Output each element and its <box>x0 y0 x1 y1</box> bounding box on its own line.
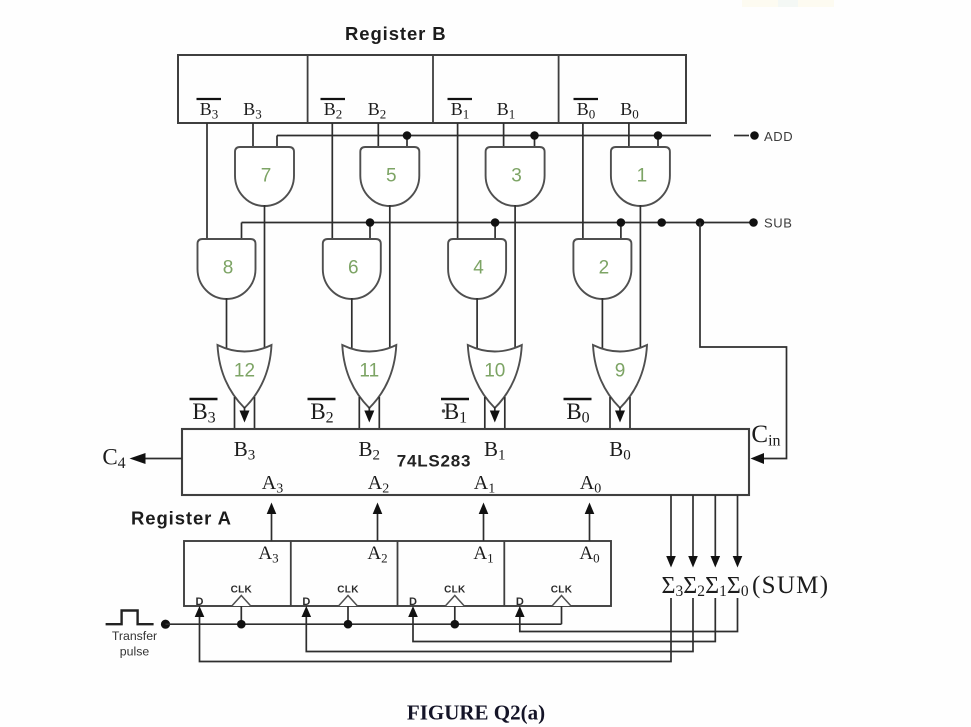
OR gate 11 <box>342 345 396 408</box>
svg-text:10: 10 <box>484 361 505 382</box>
wire gate 6 output to OR gate <box>351 298 353 353</box>
junction SUB / gate 2 <box>617 218 626 227</box>
svg-text:5: 5 <box>386 166 397 187</box>
AND gate 4 <box>448 239 506 299</box>
svg-text:pulse: pulse <box>120 645 150 659</box>
junction ADD / gate 1 <box>654 131 663 140</box>
node ADD terminal dot <box>750 131 759 140</box>
wire CLK stub (cell A3) <box>240 606 242 624</box>
svg-text:Register A: Register A <box>131 508 232 529</box>
AND gate 7 <box>235 147 294 206</box>
junction SUB / gate 4 <box>491 218 500 227</box>
wire C4 output <box>145 458 182 460</box>
wire A0 register A to adder <box>589 509 591 541</box>
wire A2 register A to adder <box>377 509 379 541</box>
svg-text:CLK: CLK <box>231 585 253 596</box>
svg-text:74LS283: 74LS283 <box>397 452 472 471</box>
wire CLK stub (cell A2) <box>347 606 349 624</box>
node transfer pulse dot <box>161 620 170 629</box>
wire B0bar from register B to gate 2 <box>582 123 584 239</box>
register B <box>178 55 686 123</box>
svg-text:FIGURE Q2(a): FIGURE Q2(a) <box>407 701 545 725</box>
svg-text:11: 11 <box>359 361 379 382</box>
svg-text:SUB: SUB <box>764 216 793 231</box>
AND gate 5 <box>360 147 419 206</box>
junction ADD / gate 3 <box>530 131 539 140</box>
wire gate 2 output to OR gate <box>601 298 603 353</box>
junction SUB / Cin feed <box>696 218 705 227</box>
wire CLK stub (cell A1) <box>454 606 456 624</box>
node B3bar (adder input) <box>190 399 218 427</box>
svg-text:(SUM): (SUM) <box>752 572 829 599</box>
wire B3bar from register B to gate 8 <box>206 123 208 239</box>
clock input CLK (cell A0) <box>551 585 573 607</box>
wire ADD tap to gate 3 <box>534 136 536 148</box>
svg-text:Transfer: Transfer <box>112 629 157 643</box>
svg-text:8: 8 <box>223 258 234 279</box>
junction pulse line / CLK A2 <box>344 620 353 629</box>
AND gate 6 <box>323 239 381 299</box>
wire B0 from register B to gate 1 <box>628 123 630 147</box>
wire SUB tap to gate 2 <box>620 223 622 240</box>
svg-text:6: 6 <box>348 258 359 279</box>
pin label B2bar (register B) <box>321 99 346 122</box>
wire sum S3 from adder <box>670 495 672 559</box>
wire gate 7 output to OR gate <box>264 205 266 353</box>
AND gate 1 <box>611 147 670 206</box>
wire gate 8 output to OR gate <box>226 298 228 353</box>
wire SUB tap to gate 4 <box>494 223 496 240</box>
wire sum S2 from adder <box>692 495 694 559</box>
adder 74LS283 U1 <box>182 429 749 495</box>
junction pulse line / CLK A1 <box>451 620 460 629</box>
svg-text:CLK: CLK <box>444 585 466 596</box>
wire A3 register A to adder <box>271 509 273 541</box>
wire transfer pulse line <box>166 623 562 625</box>
transfer pulse source <box>106 611 154 625</box>
OR gate 9 <box>593 345 647 408</box>
wire OR gate 12 output to 74LS283 <box>235 397 255 429</box>
wire sum S1 from adder <box>714 495 716 559</box>
svg-text:9: 9 <box>615 361 626 382</box>
label SUM outputs <box>662 572 830 600</box>
wire B3 from register B to gate 7 <box>252 123 254 147</box>
OR gate 10 <box>468 345 522 408</box>
clock input CLK (cell A1) <box>444 585 466 607</box>
junction pulse line / CLK A3 <box>237 620 246 629</box>
wire S0 feedback to D of A0 <box>520 598 738 632</box>
wire gate 1 output to OR gate <box>639 205 641 353</box>
wire ADD tap to gate 5 <box>406 136 408 148</box>
wire B1 from register B to gate 3 <box>503 123 505 147</box>
wire gate 4 output to OR gate <box>476 298 478 353</box>
node B0bar (adder input) <box>564 399 592 427</box>
wire ADD tap to gate 1 <box>657 136 659 148</box>
wire SUB tap to gate 6 <box>369 223 371 240</box>
ADD net wire <box>277 135 711 137</box>
svg-text:2: 2 <box>599 258 610 279</box>
wire gate 3 output to OR gate <box>514 205 516 353</box>
wire B1bar from register B to gate 4 <box>457 123 459 239</box>
svg-text:CLK: CLK <box>337 585 359 596</box>
wire sum S0 from adder <box>737 495 739 559</box>
pin label B1bar (register B) <box>448 99 473 122</box>
AND gate 3 <box>486 147 545 206</box>
SUB net wire <box>242 222 754 224</box>
wire OR gate 9 output to 74LS283 <box>610 397 630 429</box>
wire S2 feedback to D of A2 <box>306 598 693 652</box>
pin label B3bar (register B) <box>197 99 222 122</box>
label Transfer pulse <box>112 629 157 659</box>
svg-text:4: 4 <box>473 258 484 279</box>
wire A1 register A to adder <box>483 509 485 541</box>
wire S3 feedback to D of A3 <box>200 598 672 662</box>
OR gate 12 <box>218 345 272 408</box>
svg-text:Register B: Register B <box>345 23 447 44</box>
wire B2 from register B to gate 5 <box>377 123 379 147</box>
node SUB terminal dot <box>749 218 758 227</box>
node B2bar (adder input) <box>308 399 336 427</box>
pin label B0bar (register B) <box>574 99 599 122</box>
svg-text:1: 1 <box>637 166 648 187</box>
junction ADD / gate 5 <box>403 131 412 140</box>
register A <box>184 541 611 606</box>
wire S1 feedback to D of A1 <box>413 598 715 642</box>
clock input CLK (cell A2) <box>337 585 359 607</box>
wire gate 5 output to OR gate <box>389 205 391 353</box>
svg-text:CLK: CLK <box>551 585 573 596</box>
wire OR gate 11 output to 74LS283 <box>359 397 379 429</box>
clock input CLK (cell A3) <box>231 585 253 607</box>
svg-text:7: 7 <box>261 166 272 187</box>
wire B2bar from register B to gate 6 <box>331 123 333 239</box>
junction SUB stray <box>657 218 666 227</box>
svg-text:12: 12 <box>234 361 255 382</box>
wire Cin feed <box>700 223 787 459</box>
node B1bar (adder input) <box>441 399 469 427</box>
svg-text:ADD: ADD <box>764 129 793 144</box>
junction SUB / gate 6 <box>366 218 375 227</box>
AND gate 8 <box>198 239 256 299</box>
wire OR gate 10 output to 74LS283 <box>485 397 505 429</box>
svg-text:3: 3 <box>511 166 522 187</box>
AND gate 2 <box>573 239 631 299</box>
